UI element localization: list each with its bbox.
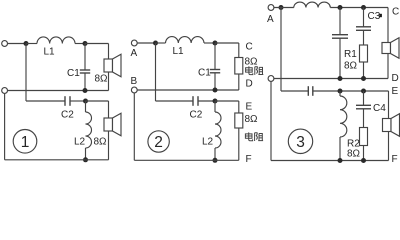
svg-text:F: F: [246, 154, 252, 165]
svg-text:C: C: [246, 42, 253, 53]
terminal B: [131, 87, 137, 93]
wire bottom rail: [133, 93, 135, 160]
node junction: [83, 41, 88, 46]
node junction: [361, 158, 366, 163]
capacitor C4: [363, 91, 365, 105]
wire bottom rail: [270, 81, 272, 160]
node junction: [213, 88, 218, 93]
svg-text:B: B: [131, 76, 138, 87]
svg-text:D: D: [392, 73, 399, 84]
node junction: [213, 158, 218, 163]
wire: [156, 42, 166, 44]
svg-text:C1: C1: [198, 68, 211, 79]
wire: [363, 146, 365, 161]
wire: [198, 100, 215, 102]
node junction: [279, 5, 284, 10]
svg-text:C: C: [392, 7, 399, 18]
label circled 2: [148, 131, 169, 152]
svg-text:8Ω: 8Ω: [245, 114, 259, 125]
wire: [108, 44, 110, 60]
capacitor C1: [214, 43, 216, 70]
svg-text:C1: C1: [67, 68, 80, 79]
wire: [274, 7, 294, 9]
wire top rail: [330, 7, 388, 9]
terminal IN1-: [2, 88, 8, 94]
resistor R1: [360, 45, 368, 62]
svg-text:1: 1: [21, 134, 30, 151]
wire: [108, 72, 110, 91]
wire: [108, 101, 110, 118]
C3 asterisk mark: [379, 14, 382, 17]
inductor L2: [85, 101, 87, 112]
svg-text:E: E: [246, 102, 253, 113]
wire: [387, 54, 389, 79]
node junction: [83, 157, 88, 162]
svg-text:R1: R1: [344, 49, 357, 60]
wire: [86, 100, 109, 102]
wire: [238, 128, 240, 160]
capacitor (series, low section): [307, 86, 309, 96]
node junction: [338, 5, 343, 10]
capacitor C2: [192, 96, 194, 106]
resistor 8ohm E-F: [235, 113, 243, 128]
terminal A: [268, 5, 274, 11]
wire feed to low section: [280, 8, 282, 92]
node junction: [83, 88, 88, 93]
wire: [215, 100, 239, 102]
svg-text:8Ω: 8Ω: [347, 149, 361, 160]
resistor R2: [360, 128, 368, 146]
speaker (lower): [383, 119, 392, 132]
node junction: [338, 158, 343, 163]
wire: [204, 42, 215, 44]
terminal IN1+: [2, 41, 8, 47]
capacitor C3: [363, 8, 365, 27]
inductor L1: [37, 37, 75, 44]
terminal B: [268, 76, 274, 82]
wire bottom rail: [4, 93, 6, 159]
capacitor (shunt): [339, 8, 341, 35]
svg-text:A: A: [131, 48, 138, 59]
node junction: [83, 99, 88, 104]
speaker 8ohm (woofer): [104, 59, 113, 72]
svg-text:8Ω: 8Ω: [94, 137, 108, 148]
wire: [75, 43, 85, 45]
wire: [8, 43, 27, 45]
capacitor C1: [84, 44, 86, 71]
svg-text:C3: C3: [368, 11, 381, 22]
terminal A: [131, 40, 137, 46]
svg-text:L1: L1: [173, 46, 185, 57]
node junction: [338, 89, 343, 94]
speaker 8ohm (tweeter): [104, 118, 113, 131]
svg-text:D: D: [246, 79, 253, 90]
node junction: [24, 41, 29, 46]
svg-text:F: F: [392, 154, 398, 165]
node junction: [213, 41, 218, 46]
svg-text:L2: L2: [202, 137, 214, 148]
capacitor C2: [64, 96, 66, 106]
node junction: [338, 76, 343, 81]
svg-text:8Ω: 8Ω: [245, 57, 259, 68]
wire: [70, 100, 86, 102]
wire: [238, 74, 240, 90]
resistor 8ohm C-D: [235, 58, 243, 75]
label dianzu resistor: [246, 66, 264, 75]
svg-text:A: A: [267, 14, 274, 25]
svg-text:8Ω: 8Ω: [95, 74, 109, 85]
node junction: [153, 41, 158, 46]
wire: [387, 8, 389, 43]
inductor L2: [214, 101, 216, 112]
svg-text:C2: C2: [61, 110, 74, 121]
svg-text:C4: C4: [373, 103, 386, 114]
wire: [363, 62, 365, 79]
wire rail D: [274, 78, 388, 80]
node junction: [361, 5, 366, 10]
wire: [108, 131, 110, 160]
svg-text:C2: C2: [190, 110, 203, 121]
wire: [215, 42, 239, 44]
inductor (shunt, low section): [339, 91, 341, 96]
wire feed to HP section: [25, 44, 27, 102]
node junction: [361, 89, 366, 94]
node junction: [361, 76, 366, 81]
svg-text:L2: L2: [74, 137, 86, 148]
svg-text:3: 3: [296, 134, 305, 151]
wire: [137, 42, 155, 44]
svg-text:L1: L1: [44, 47, 56, 58]
svg-text:2: 2: [154, 134, 163, 151]
svg-text:E: E: [392, 86, 399, 97]
speaker (upper): [382, 43, 391, 54]
wire rail E: [313, 90, 389, 92]
label circled 3: [288, 129, 312, 153]
label dianzu resistor: [245, 132, 263, 141]
inductor L1: [166, 37, 204, 43]
wire return rail: [137, 89, 239, 91]
wire feed to HP section: [155, 43, 157, 101]
wire return rail: [8, 90, 109, 92]
label circled 1: [13, 130, 37, 154]
wire: [26, 43, 37, 45]
wire: [85, 43, 109, 45]
node junction: [213, 99, 218, 104]
wire: [388, 132, 390, 161]
wire: [388, 91, 390, 119]
inductor (series): [294, 2, 331, 7]
svg-text:8Ω: 8Ω: [344, 61, 358, 72]
